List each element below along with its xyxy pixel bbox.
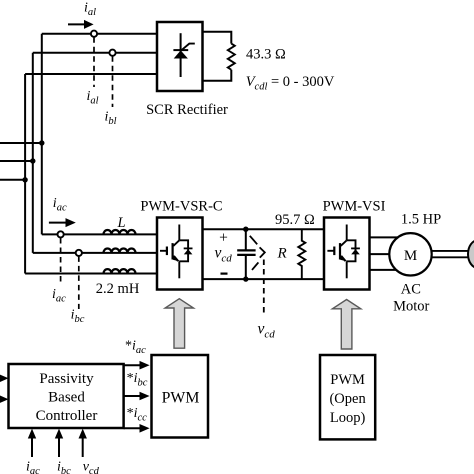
- svg-text:ibc: ibc: [57, 460, 71, 474]
- junction: feed c dot: [22, 177, 27, 182]
- svg-text:M: M: [404, 248, 417, 264]
- sensor: current sensor node b (VSR): [76, 250, 82, 256]
- dashed lead: i_bl sensor: [112, 56, 114, 107]
- dashed lead: i_al sensor: [93, 37, 95, 87]
- wire: DC link top rail: [203, 228, 325, 230]
- arrow: i_al current arrow: [68, 20, 94, 29]
- svg-text:2.2 mH: 2.2 mH: [96, 281, 140, 297]
- arrow: i_ac feedback into controller: [28, 429, 36, 457]
- svg-text:PWM-VSR-C: PWM-VSR-C: [140, 199, 222, 215]
- svg-text:Motor: Motor: [393, 299, 429, 315]
- shaft: motor shaft lines: [432, 251, 470, 257]
- capacitor C: [237, 229, 255, 279]
- svg-text:Loop): Loop): [330, 410, 366, 426]
- sensor: current sensor node a (VSR): [58, 231, 64, 237]
- gray arrow: PWM open loop to VSI: [332, 300, 360, 350]
- arrow: controller input 1 (left): [0, 375, 9, 382]
- svg-text:iac: iac: [53, 196, 67, 214]
- wire: rectifier phase c input line: [25, 73, 157, 75]
- inductor L phase c: [104, 269, 136, 273]
- wire: VSI output phase c: [370, 269, 401, 271]
- arrow: i_ac current arrow: [49, 218, 76, 227]
- thyristor symbol: [173, 33, 194, 77]
- PWM-VSI inverter box: [324, 218, 370, 290]
- svg-text:ibc: ibc: [71, 308, 85, 326]
- PWM-VSR-C converter box: [157, 218, 203, 290]
- dashed lead: i_bc sensor: [78, 256, 80, 309]
- junction: feed a dot: [39, 140, 44, 145]
- svg-text:Based: Based: [48, 390, 85, 406]
- svg-text:Vcdl = 0 - 300V: Vcdl = 0 - 300V: [246, 74, 335, 93]
- IGBT module U1 (VSR): [160, 225, 193, 279]
- wire: left vertical bus phase a: [41, 34, 43, 235]
- svg-text:L: L: [117, 215, 126, 231]
- svg-text:ibl: ibl: [105, 109, 117, 127]
- wire: rectifier phase b input line: [33, 52, 157, 54]
- junction: cap bottom dot: [243, 276, 248, 281]
- svg-text:vcd: vcd: [258, 321, 276, 341]
- svg-text:PWM: PWM: [162, 390, 200, 407]
- wire: source feed line a: [0, 142, 42, 144]
- arrow: *i_ac to PWM: [124, 361, 150, 370]
- svg-text:Passivity: Passivity: [39, 371, 94, 387]
- dashed lead: i_ac sensor: [60, 238, 62, 286]
- wire: DC link bottom rail: [203, 278, 325, 280]
- dashed sensor: v_cd measurement: [250, 236, 265, 317]
- svg-text:PWM-VSI: PWM-VSI: [323, 199, 386, 215]
- sensor: current sensor node b (rectifier): [109, 50, 115, 56]
- arrow: v_cd feedback into controller: [79, 429, 87, 457]
- junction: feed b dot: [30, 158, 35, 163]
- svg-text:ial: ial: [87, 89, 99, 107]
- wire: VSI output phase b: [370, 253, 396, 255]
- svg-text:iac: iac: [26, 460, 40, 474]
- wire: rectifier load top: [203, 32, 232, 44]
- svg-text:SCR Rectifier: SCR Rectifier: [146, 102, 228, 118]
- svg-text:*ibc: *ibc: [127, 371, 148, 389]
- resistor: 43.3 ohm load: [228, 44, 235, 70]
- IGBT module U2 (VSI): [327, 225, 360, 279]
- svg-text:ial: ial: [84, 0, 96, 18]
- svg-text:*iac: *iac: [125, 339, 146, 357]
- svg-text:R: R: [277, 246, 287, 262]
- arrow: controller input 2 (left): [0, 396, 9, 403]
- Passivity Based Controller box: [9, 364, 124, 428]
- PWM open loop box: [320, 355, 375, 439]
- svg-text:Controller: Controller: [36, 408, 98, 424]
- wire: VSR phase c input: [25, 273, 157, 275]
- gray arrow: PWM to VSR: [165, 299, 193, 349]
- sensor: current sensor node a (rectifier): [91, 31, 97, 37]
- junction: cap top dot: [243, 227, 248, 232]
- wire: left vertical bus phase c: [24, 74, 26, 274]
- wire: VSR phase b input: [33, 252, 157, 254]
- wire: source feed line c: [0, 179, 25, 181]
- wire: rectifier phase a input line: [42, 33, 157, 35]
- resistor R: [298, 229, 305, 279]
- load: gray ellipse at right edge: [468, 240, 474, 268]
- label: minus: [221, 273, 228, 275]
- svg-text:vcd: vcd: [215, 245, 233, 265]
- wire: source feed line b: [0, 160, 33, 162]
- arrow: i_bc feedback into controller: [55, 429, 63, 457]
- SCR rectifier box: [157, 22, 203, 91]
- arrow: *i_bc to PWM: [124, 392, 150, 401]
- svg-text:(Open: (Open: [329, 391, 366, 407]
- svg-text:iac: iac: [52, 287, 66, 305]
- inductor L phase a: [104, 230, 136, 234]
- svg-text:PWM: PWM: [330, 372, 365, 388]
- wire: VSI output phase a: [370, 236, 401, 238]
- svg-text:43.3 Ω: 43.3 Ω: [246, 47, 286, 63]
- wire: left vertical bus phase b: [32, 53, 34, 253]
- arrow: *i_cc to PWM: [124, 424, 150, 433]
- inductor L phase b: [104, 248, 136, 252]
- wire: rectifier load bottom: [203, 70, 232, 81]
- motor M circle: [389, 233, 431, 275]
- svg-text:AC: AC: [401, 282, 421, 298]
- svg-text:95.7 Ω: 95.7 Ω: [275, 212, 315, 228]
- svg-text:vcd: vcd: [83, 460, 100, 474]
- PWM box: [152, 355, 209, 438]
- svg-text:*icc: *icc: [127, 406, 148, 424]
- wire: VSR phase a input: [42, 233, 157, 235]
- svg-text:1.5 HP: 1.5 HP: [401, 212, 441, 228]
